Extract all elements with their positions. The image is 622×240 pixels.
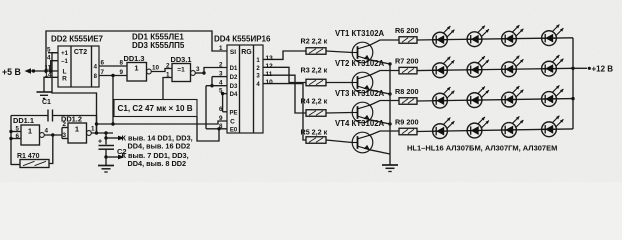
svg-text:7: 7: [101, 69, 105, 76]
svg-text:3: 3: [63, 132, 67, 139]
wire gnd arrow: [106, 156, 119, 158]
resistor R6: [399, 37, 417, 44]
resistor R2: [306, 48, 326, 55]
wire R1 left lead: [11, 164, 20, 166]
wire VT2 collector: [370, 71, 399, 76]
svg-text:10: 10: [266, 79, 274, 86]
LED HL2: [467, 26, 489, 47]
framed note C1 C2: [114, 100, 197, 117]
transistor VT3: [352, 102, 373, 123]
wire pin5 stub: [11, 131, 21, 133]
node DD3.1 out: [202, 71, 205, 74]
svg-text:E0: E0: [230, 127, 238, 133]
node R1 top: [51, 133, 54, 136]
resistor R8: [399, 98, 417, 105]
wire VT2 emitter: [370, 90, 390, 94]
LED HL4: [542, 25, 564, 46]
svg-text:11: 11: [45, 65, 52, 72]
svg-text:3: 3: [196, 66, 200, 73]
ground under C2: [98, 166, 114, 173]
node +12V: [588, 67, 591, 70]
wire feedback riser: [52, 53, 97, 133]
svg-text:10: 10: [152, 65, 160, 72]
transistor VT2: [352, 72, 373, 93]
wire DD2 out4 to DD1.3 pin8: [99, 65, 127, 67]
node +5V: [32, 69, 35, 72]
svg-text:R3 2,2 к: R3 2,2 к: [301, 66, 328, 75]
wire R4 to VT3 base: [326, 112, 352, 115]
wire pin6 stub: [11, 138, 21, 140]
LED HL3: [502, 25, 524, 46]
wire emitter rail: [389, 64, 391, 165]
wire R1 right lead: [49, 135, 53, 164]
wire top rail: [46, 31, 227, 71]
svg-text:R5 2,2 к: R5 2,2 к: [301, 128, 328, 137]
svg-text:C: C: [230, 118, 235, 125]
wire DD3.1 output: [195, 72, 204, 74]
svg-text:12: 12: [266, 63, 274, 70]
gate DD1.3: [127, 63, 151, 82]
svg-text:DD4, выв. 16 DD2: DD4, выв. 16 DD2: [128, 142, 191, 151]
wire DD1.1 output: [44, 134, 62, 136]
node clock wire tap: [95, 122, 98, 125]
svg-text:1: 1: [219, 45, 223, 52]
node DD2 pin7 junction: [111, 74, 114, 77]
LED HL7: [502, 56, 524, 77]
svg-text:2: 2: [219, 62, 223, 69]
svg-text:R9 200: R9 200: [395, 118, 419, 127]
svg-text:R4 2,2 к: R4 2,2 к: [301, 97, 328, 106]
wire VT4 emitter: [370, 150, 390, 154]
svg-text:2: 2: [166, 63, 170, 70]
LED HL11: [502, 86, 524, 107]
LED HL1: [433, 26, 455, 47]
LED HL14: [467, 117, 489, 138]
ground emitter rail: [382, 165, 398, 172]
wire R2 to VT1 base: [326, 51, 352, 53]
wire DD3.1 pin1 feedback: [163, 78, 172, 100]
svg-text:+12 В: +12 В: [592, 65, 614, 74]
wire +12V stub: [573, 67, 587, 69]
resistor R4: [306, 110, 326, 117]
resistor R1 box: [20, 160, 49, 168]
wire +12V rail: [572, 38, 574, 129]
svg-text:9: 9: [219, 115, 223, 122]
svg-text:C1, C2 47 мк × 10 В: C1, C2 47 мк × 10 В: [118, 104, 193, 113]
svg-text:DD3 К555ЛП5: DD3 К555ЛП5: [132, 41, 185, 50]
svg-text:L: L: [63, 68, 67, 75]
node C1 feedback: [95, 131, 98, 134]
svg-text:1: 1: [134, 64, 138, 73]
node gnd arrow: [104, 155, 107, 158]
wire R5 to VT4 base: [326, 140, 352, 143]
svg-text:VT3 КТ3102А: VT3 КТ3102А: [335, 89, 385, 98]
svg-text:6: 6: [16, 133, 20, 140]
wire LED row 1: [417, 38, 573, 40]
LED HL13: [433, 118, 455, 139]
wire DD1.3 out to DD3.1: [151, 69, 172, 72]
resistor R9: [399, 128, 417, 135]
wire DD1.2 input bus: [61, 128, 63, 139]
LED HL12: [542, 85, 564, 106]
svg-text:+1: +1: [61, 51, 69, 57]
resistor R5: [306, 137, 326, 144]
LED HL6: [467, 56, 489, 77]
node pin4 tie: [49, 69, 52, 72]
svg-text:VT1 КТ3102А: VT1 КТ3102А: [335, 29, 385, 38]
svg-text:DD1.3: DD1.3: [124, 54, 145, 63]
node rail row2: [571, 67, 574, 70]
LED HL5: [433, 57, 455, 78]
wire E0 riser: [197, 117, 219, 141]
svg-text:4: 4: [47, 55, 51, 62]
svg-text:RG: RG: [241, 49, 252, 56]
wire DD2 out8 to DD1.3 pin9: [99, 75, 127, 77]
resistor R3: [306, 79, 326, 86]
wire D2-D3 tie: [211, 77, 213, 86]
wire: DD1.1 input bus: [10, 116, 12, 166]
svg-text:R: R: [62, 76, 67, 83]
wire +5V rail: [31, 70, 58, 72]
node Vcc arrow: [104, 136, 107, 139]
svg-text:D2: D2: [230, 75, 238, 81]
node rail row3: [571, 97, 574, 100]
wire out12 to R3: [263, 67, 306, 82]
svg-text:VT4 КТ3102А: VT4 КТ3102А: [335, 119, 385, 128]
svg-text:13: 13: [266, 55, 274, 62]
transistor VT1: [352, 42, 373, 63]
capacitor C1 plates: [47, 110, 49, 122]
svg-text:DD4, выв. 8 DD2: DD4, выв. 8 DD2: [128, 159, 187, 168]
wire C1 left: [11, 115, 48, 117]
svg-text:R8 200: R8 200: [395, 87, 419, 96]
ground at DD2 R pin: [37, 92, 52, 98]
wire LED row 3: [417, 99, 573, 101]
svg-text:11: 11: [266, 71, 273, 78]
wire pin7 down to clock net: [112, 76, 114, 125]
gate DD1.1: [21, 125, 44, 145]
gate DD1.2: [68, 123, 91, 143]
svg-text:PE: PE: [229, 110, 237, 116]
svg-text:+: +: [98, 139, 102, 146]
wire clock to DD4 C: [97, 121, 228, 124]
wire C1 right: [53, 116, 97, 134]
wire DD2 pin14 to ground: [44, 77, 58, 92]
wire DD2 pin5 stub: [48, 52, 58, 54]
wire out11 to R4: [263, 75, 306, 113]
node top rail: [44, 69, 47, 72]
wire D3 tie bus: [205, 86, 207, 129]
wire DD1.2 output: [91, 132, 113, 134]
svg-text:1: 1: [91, 126, 95, 133]
wire VT1 collector: [370, 40, 399, 45]
resistor R7: [399, 67, 417, 74]
svg-text:DD3.1: DD3.1: [171, 55, 192, 64]
svg-text:DD2 К555ИЕ7: DD2 К555ИЕ7: [51, 35, 104, 44]
svg-text:6: 6: [101, 60, 105, 67]
+5V arrow: [25, 68, 32, 73]
svg-text:CT2: CT2: [74, 49, 87, 56]
wire C2 riser: [105, 133, 107, 145]
svg-text:=1: =1: [177, 67, 185, 74]
node DD1.1 input pin6: [9, 137, 12, 140]
wire VT3 collector: [370, 101, 399, 106]
svg-text:D4: D4: [230, 92, 238, 98]
wire D2 stub: [212, 76, 227, 78]
wire PE stub: [223, 111, 227, 113]
wire D3 stub: [206, 85, 227, 87]
svg-text:DD1.1: DD1.1: [13, 116, 34, 125]
svg-text:9: 9: [120, 69, 124, 76]
svg-text:C1: C1: [42, 99, 51, 106]
svg-text:R2 2,2 к: R2 2,2 к: [301, 37, 328, 46]
wire LED row 4: [417, 129, 573, 132]
LED HL9: [433, 87, 455, 108]
node DD1.1 input pin5: [9, 130, 12, 133]
wire R3 to VT2 base: [326, 82, 352, 84]
wire out13 to R2: [263, 51, 306, 59]
wire E0 stub: [206, 128, 227, 130]
LED HL15: [502, 116, 524, 137]
wire out10 to R5: [263, 84, 306, 140]
wire C2 to ground: [105, 149, 107, 165]
capacitor C2: [98, 139, 127, 157]
wire VT3 emitter: [370, 120, 390, 124]
wire D4 tie bus: [222, 94, 224, 112]
counter DD2: [58, 46, 99, 87]
node C2 branch: [104, 131, 107, 134]
svg-text:1: 1: [75, 125, 79, 134]
svg-text:VT2 КТ3102А: VT2 КТ3102А: [335, 59, 385, 68]
svg-text:+5 В: +5 В: [2, 67, 21, 77]
LED HL16: [542, 116, 564, 137]
wire to D1: [204, 68, 227, 74]
LED HL10: [467, 87, 489, 108]
transistor VT4: [352, 132, 373, 153]
svg-text:1: 1: [28, 127, 32, 136]
svg-text:DD4 К555ИР16: DD4 К555ИР16: [214, 35, 271, 44]
wire Vcc arrow: [106, 137, 119, 139]
svg-text:D1: D1: [230, 66, 238, 72]
svg-text:–1: –1: [61, 59, 68, 65]
svg-text:SI: SI: [230, 49, 236, 56]
LED HL8: [542, 55, 564, 76]
svg-text:D3: D3: [230, 84, 238, 90]
wire LED row 2: [417, 68, 573, 70]
svg-text:R6 200: R6 200: [395, 26, 419, 35]
wire D4 stub: [223, 93, 227, 95]
svg-text:4: 4: [45, 128, 49, 135]
svg-text:5: 5: [47, 47, 51, 54]
wire VT1 emitter: [370, 60, 390, 64]
wire VT4 collector: [370, 131, 399, 135]
gate DD3.1 (XOR): [172, 64, 195, 82]
register DD4: [227, 45, 263, 133]
wire pin4 tie: [51, 61, 58, 71]
svg-text:R7 200: R7 200: [395, 57, 419, 66]
svg-text:HL1–HL16 АЛ307БМ, АЛ307ГМ, АЛ3: HL1–HL16 АЛ307БМ, АЛ307ГМ, АЛ307ЕМ: [407, 144, 557, 153]
svg-text:DD1.2: DD1.2: [61, 115, 82, 124]
